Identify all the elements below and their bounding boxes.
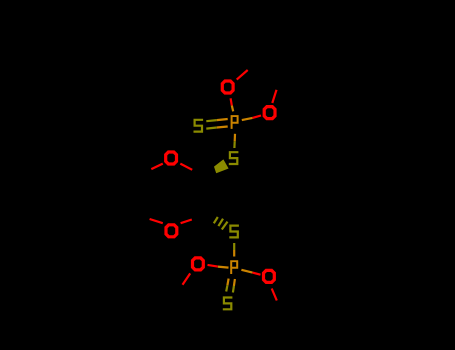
bond P-S bridging top <box>233 134 236 148</box>
bond P-O right <box>242 116 261 121</box>
bond O-CH2 stub upper-left ethyl <box>237 70 248 80</box>
atom O upper-left ester <box>221 79 235 94</box>
atom S bridging bottom <box>229 225 239 239</box>
atom S bridging top <box>229 151 239 165</box>
atom O ring top <box>164 150 178 165</box>
bond O-C3 stub <box>181 220 192 224</box>
S=P double bond upper line <box>206 119 227 121</box>
P=S double bond right line <box>233 279 235 293</box>
bond O-CH2 stub right ethyl bottom <box>272 289 277 301</box>
bond O-CH2 stub right ethyl top <box>272 90 276 103</box>
S=P double bond lower line <box>206 127 227 129</box>
atom O left ester bottom <box>191 256 205 271</box>
atom O right ester bottom <box>262 269 276 284</box>
atom P bottom <box>230 260 238 274</box>
bond P-O upper-left <box>231 98 234 111</box>
bond O-C2 stub <box>180 164 192 170</box>
bond P-O left bottom <box>208 265 229 268</box>
atom S thiono top <box>194 119 204 133</box>
bond O-CH2 stub left ethyl bottom <box>183 273 191 284</box>
atom O ring bottom <box>164 223 178 238</box>
atom S thiono bottom <box>223 296 233 310</box>
bond S-P bridging bottom <box>233 243 235 257</box>
P=S double bond left line <box>226 279 228 292</box>
bond O-C5 stub <box>150 219 163 223</box>
atom P top <box>231 115 239 129</box>
bold wedge bond C2-S olive half <box>214 159 229 173</box>
atom O right ester top <box>263 105 277 120</box>
bond O-C6 stub <box>151 164 163 170</box>
bond P-O right bottom <box>241 270 260 275</box>
hashed wedge bond C3-S olive marks <box>214 217 228 230</box>
